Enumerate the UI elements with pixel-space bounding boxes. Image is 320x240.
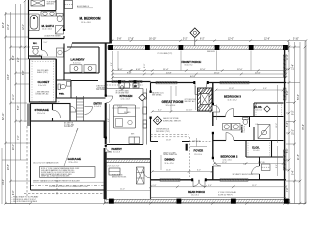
entry note block	[96, 84, 107, 91]
svg-text:FOYER: FOYER	[194, 148, 204, 152]
dimension line top	[112, 41, 306, 204]
svg-text:12'-0": 12'-0"	[237, 69, 243, 71]
label WC	[33, 34, 61, 44]
svg-text:11'-8 x 12'-2: 11'-8 x 12'-2	[228, 99, 237, 101]
svg-text:16'-0 x 8'-0 O.H. GARAGE DOOR: 16'-0 x 8'-0 O.H. GARAGE DOOR	[33, 162, 59, 165]
door jambs black	[63, 29, 214, 181]
svg-text:78'-4": 78'-4"	[303, 124, 305, 130]
bath2 hall wall	[250, 117, 255, 141]
interior dim marks center	[176, 86, 283, 176]
hall wall right of bedroom2	[259, 157, 261, 180]
svg-text:M. BATH: M. BATH	[42, 24, 54, 28]
closet 1 walls	[254, 103, 284, 117]
svg-text:11'-2": 11'-2"	[287, 54, 289, 60]
svg-text:KITCHEN: KITCHEN	[120, 94, 133, 98]
svg-text:OPT. BUILT-INS: OPT. BUILT-INS	[185, 99, 196, 101]
svg-text:8" COLUMNS (TYP.): 8" COLUMNS (TYP.)	[158, 53, 173, 55]
kitchen front wall	[106, 81, 151, 83]
svg-text:21'-8": 21'-8"	[298, 154, 300, 160]
linen between bath2	[256, 124, 259, 126]
dimension lines left margin	[2, 1, 30, 204]
svg-text:9'-0 x 14'-2: 9'-0 x 14'-2	[38, 85, 46, 87]
wc toilet	[33, 47, 39, 55]
svg-text:M. BEDROOM: M. BEDROOM	[80, 17, 101, 21]
attic stair ladder	[77, 96, 84, 121]
svg-text:12'-6 x 14'-8: 12'-6 x 14'-8	[121, 99, 130, 101]
label KITCHEN	[116, 90, 133, 101]
door arc bedroom2 hall	[252, 166, 260, 174]
svg-text:5'-8": 5'-8"	[258, 162, 262, 164]
wall left of master bath	[28, 0, 30, 39]
dimension ticks top	[111, 39, 308, 42]
wall master bath right	[63, 0, 65, 39]
svg-text:8'-0": 8'-0"	[287, 148, 289, 153]
rear wall of house	[151, 179, 287, 181]
svg-text:PER SPEC (TYP.): PER SPEC (TYP.)	[156, 131, 170, 133]
right wall windows hatched	[283, 55, 286, 170]
svg-text:SHELF (TYP.): SHELF (TYP.)	[37, 72, 48, 74]
wall between great room and bedrooms	[212, 83, 214, 181]
svg-text:6'-0": 6'-0"	[197, 170, 201, 172]
svg-text:8'-4": 8'-4"	[13, 55, 15, 60]
storage top dim texts	[39, 102, 61, 104]
svg-text:BEDROOM 2: BEDROOM 2	[221, 154, 238, 158]
linen shelves	[262, 164, 271, 171]
svg-text:12'-8": 12'-8"	[264, 39, 270, 41]
mudroom door arc	[143, 170, 151, 178]
label BATH 2	[241, 124, 246, 133]
hall notes	[233, 162, 266, 176]
door arc master bedroom	[64, 44, 72, 52]
porch short dim ticks	[129, 69, 146, 75]
svg-text:12'-0 CLG.: 12'-0 CLG.	[194, 154, 203, 156]
svg-text:BATH 2: BATH 2	[241, 124, 244, 133]
svg-text:6'-8": 6'-8"	[153, 185, 157, 187]
front porch label	[158, 51, 216, 67]
svg-text:W/ CROWN TRIM: W/ CROWN TRIM	[116, 93, 130, 95]
svg-text:CLOSET: CLOSET	[38, 80, 50, 84]
garage note line 2	[49, 185, 88, 188]
svg-text:GARAGE: GARAGE	[68, 157, 82, 161]
garage slab dashed	[24, 126, 104, 196]
svg-text:2'-8" 4'-0" 2'-8": 2'-8" 4'-0" 2'-8"	[108, 165, 120, 167]
porch dimension lines	[113, 71, 287, 78]
label DINING	[163, 152, 177, 164]
rear porch label	[188, 191, 205, 196]
svg-text:GREAT ROOM: GREAT ROOM	[162, 100, 184, 104]
storage grey wall	[27, 104, 31, 127]
bottom left bullet notes	[11, 195, 39, 203]
dimension text right (rotated)	[287, 54, 305, 192]
svg-text:BEDROOM 3: BEDROOM 3	[224, 94, 241, 98]
kitchen left wall (thick)	[105, 44, 107, 200]
kitchen dim lines	[110, 104, 141, 143]
svg-text:6'-2": 6'-2"	[200, 39, 205, 41]
label M. BEDROOM	[80, 17, 101, 24]
rear porch dim line	[151, 186, 287, 188]
garage note box	[40, 167, 96, 178]
bedroom3 bottom wall	[213, 116, 284, 118]
svg-text:11'-4": 11'-4"	[163, 69, 169, 71]
svg-text:14'-6": 14'-6"	[8, 74, 10, 80]
mudroom top wall hatched	[106, 160, 151, 163]
laundry room walls	[64, 44, 99, 81]
svg-text:W.C.: W.C.	[33, 43, 38, 45]
dining rear dim line	[152, 171, 212, 173]
svg-text:CLOS.: CLOS.	[252, 147, 260, 150]
svg-text:17'-8": 17'-8"	[128, 39, 134, 41]
svg-text:STORAGE: STORAGE	[35, 108, 49, 112]
svg-text:5'-8": 5'-8"	[117, 39, 122, 41]
svg-text:SEE DET.: SEE DET.	[47, 3, 55, 5]
door arc entry-kitchen	[106, 96, 113, 103]
svg-text:5'-4": 5'-4"	[208, 185, 212, 187]
svg-text:18'-0 x 8'-0: 18'-0 x 8'-0	[185, 65, 193, 67]
svg-text:REAR PORCH: REAR PORCH	[188, 191, 205, 194]
svg-text:7'-0": 7'-0"	[18, 135, 20, 140]
svg-text:+ SHOE BENCH: + SHOE BENCH	[96, 87, 107, 89]
powder room walls	[57, 59, 106, 98]
closet1 tag diamond	[264, 106, 270, 112]
svg-text:6'-2": 6'-2"	[287, 90, 289, 95]
svg-text:6'-8": 6'-8"	[23, 70, 25, 75]
svg-text:5'-6 x 6'-0: 5'-6 x 6'-0	[253, 150, 260, 152]
svg-text:15'-0": 15'-0"	[214, 72, 220, 74]
bath2 toilet	[243, 118, 249, 125]
svg-text:SEE ELEV.: SEE ELEV.	[207, 51, 216, 53]
svg-text:12'-8": 12'-8"	[229, 88, 234, 90]
master bath shower	[56, 26, 64, 35]
front door arc	[195, 83, 207, 95]
svg-text:62'-10": 62'-10"	[3, 113, 5, 120]
garage note leader line	[64, 128, 78, 166]
svg-text:5'-6 x 6'-0: 5'-6 x 6'-0	[256, 109, 263, 111]
master bath toilet	[57, 14, 64, 22]
label GARAGE	[68, 157, 82, 164]
dining walls	[151, 141, 190, 143]
svg-text:12'-10": 12'-10"	[186, 110, 192, 112]
svg-text:11'-6 x 12'-0: 11'-6 x 12'-0	[165, 163, 174, 165]
kitchen sink counter	[107, 83, 143, 89]
svg-text:23'-8": 23'-8"	[8, 164, 10, 170]
svg-text:12'-4": 12'-4"	[222, 162, 227, 164]
svg-text:6'-0 x 4'-8: 6'-0 x 4'-8	[113, 152, 120, 154]
svg-text:12'-0": 12'-0"	[200, 69, 206, 71]
laundry washer left	[57, 48, 64, 57]
dimension text top	[117, 39, 299, 41]
svg-text:5'-0": 5'-0"	[118, 69, 123, 71]
svg-text:8'-0": 8'-0"	[144, 63, 146, 68]
closet1 dashed shelf	[256, 105, 282, 116]
svg-text:BENCH W/ HOOKS: BENCH W/ HOOKS	[112, 177, 126, 179]
garage top wall to kitchen	[70, 120, 106, 122]
great room tag diamond	[153, 116, 161, 124]
svg-text:9'-6": 9'-6"	[108, 118, 110, 122]
fireplace hatched	[198, 88, 213, 111]
svg-text:15'-8": 15'-8"	[166, 139, 171, 141]
closet2 dashed shelf	[248, 143, 270, 156]
svg-text:14'-8": 14'-8"	[166, 72, 172, 74]
label M. BATH	[42, 24, 54, 31]
mudroom note	[108, 165, 127, 178]
svg-text:5'-10": 5'-10"	[293, 39, 299, 41]
svg-text:13'-4": 13'-4"	[293, 64, 295, 70]
utility note block	[64, 121, 75, 128]
note top small	[47, 1, 94, 8]
svg-text:PER OWNER: PER OWNER	[96, 89, 106, 91]
wc door arc	[42, 50, 48, 56]
dimension ticks left	[4, 0, 26, 205]
closet room walls	[30, 59, 57, 102]
kitchen island	[114, 105, 136, 128]
dining dim stub	[160, 155, 162, 170]
door arc bedroom2	[213, 158, 221, 166]
svg-text:PANTRY: PANTRY	[112, 147, 123, 151]
svg-text:8'-6": 8'-6"	[276, 164, 278, 168]
bedroom3 label	[224, 94, 241, 101]
right exterior wall	[284, 46, 286, 203]
label BEDROOM 2	[221, 154, 238, 161]
svg-text:44'-8": 44'-8"	[190, 76, 196, 78]
garage walls	[31, 121, 105, 190]
label CLOS 1	[255, 106, 263, 111]
master shower top	[31, 0, 45, 6]
svg-text:CLOS.: CLOS.	[255, 106, 263, 109]
mech room door arc	[53, 110, 61, 118]
svg-text:9'-4": 9'-4"	[293, 170, 295, 175]
svg-text:9'-6 x 5'-0: 9'-6 x 5'-0	[244, 126, 246, 133]
master bath wall mid	[29, 0, 57, 11]
great room fp dim	[195, 86, 197, 110]
door arc bath2	[226, 133, 234, 141]
label PANTRY	[112, 147, 123, 154]
foyer dim line	[190, 138, 207, 147]
garage door label	[33, 162, 59, 165]
svg-text:11'-0": 11'-0"	[13, 94, 15, 100]
wall master bath bottom	[28, 38, 64, 40]
svg-text:5'-0": 5'-0"	[44, 42, 48, 44]
svg-text:22'-6 x 22'-0: 22'-6 x 22'-0	[69, 162, 78, 164]
svg-text:9'-2": 9'-2"	[18, 57, 20, 62]
front wall with porch beam (hatched)	[108, 46, 288, 49]
label LAUNDRY	[71, 58, 85, 65]
label ENTRY	[94, 102, 103, 108]
svg-text:REF.: REF.	[131, 134, 135, 136]
svg-text:11'-6": 11'-6"	[166, 170, 171, 172]
bath2 bottom wall	[213, 141, 284, 158]
pantry walls	[107, 145, 151, 159]
svg-text:PWD.: PWD.	[59, 94, 65, 96]
kitchen tag circle	[120, 86, 124, 90]
svg-text:8'-2 x 6'-4: 8'-2 x 6'-4	[73, 62, 80, 64]
svg-text:20'-0": 20'-0"	[13, 144, 15, 150]
bottom porch beam hatched	[105, 199, 290, 202]
mudroom lockers	[109, 167, 144, 184]
svg-text:6'-4": 6'-4"	[111, 62, 113, 66]
window tag diamond top	[190, 28, 200, 46]
svg-text:24'-0 x 8'-0: 24'-0 x 8'-0	[191, 195, 199, 197]
svg-text:7'-4": 7'-4"	[39, 102, 43, 104]
svg-text:SLOPE 1/4" PER FT.: SLOPE 1/4" PER FT.	[218, 194, 233, 196]
svg-text:11'-0": 11'-0"	[120, 189, 125, 191]
mud dim line bottom	[107, 190, 150, 192]
svg-text:15'-4 x 16'-0: 15'-4 x 16'-0	[81, 22, 91, 24]
hall wall above closet	[30, 58, 57, 60]
front wall windows hatched	[156, 81, 249, 84]
dimension lines right margin	[286, 42, 306, 204]
svg-text:10'-2": 10'-2"	[8, 24, 10, 30]
bedroom3 dim line	[216, 85, 283, 102]
kitchen tag diamond	[139, 94, 146, 101]
svg-text:16'-10": 16'-10"	[149, 39, 156, 41]
storage room walls	[31, 104, 71, 122]
door arc pantry	[106, 146, 112, 152]
svg-text:7'-10": 7'-10"	[117, 106, 122, 108]
svg-text:5'-4": 5'-4"	[287, 122, 289, 127]
water closet room	[29, 39, 42, 60]
svg-text:8'-2": 8'-2"	[293, 110, 295, 115]
svg-text:22'-4": 22'-4"	[3, 22, 5, 28]
svg-text:LAUNDRY: LAUNDRY	[71, 58, 85, 62]
powder toilet	[58, 82, 71, 90]
wall master bedroom right (thick)	[109, 0, 112, 44]
svg-text:18'-0 x 20'-4: 18'-0 x 20'-4	[166, 105, 176, 107]
dimension ticks right	[288, 46, 307, 205]
rear porch dim texts	[153, 185, 258, 187]
foyer jamb	[186, 144, 188, 151]
svg-text:9'-8": 9'-8"	[127, 72, 132, 74]
master bath tub	[29, 14, 39, 31]
rear wall windows hatched	[160, 179, 248, 182]
garage right wall	[104, 121, 106, 199]
bath2 shower	[258, 125, 270, 139]
svg-text:ENTRY: ENTRY	[94, 102, 103, 105]
great room dashed beam lines	[151, 135, 190, 137]
label GREAT ROOM	[162, 100, 184, 107]
svg-text:6'-2": 6'-2"	[158, 110, 162, 112]
great room dim line	[152, 86, 211, 112]
svg-text:ISLAND: ISLAND	[124, 111, 131, 114]
great room left wall	[150, 83, 152, 159]
svg-text:BUILT-IN MUD: BUILT-IN MUD	[112, 175, 123, 177]
refrigerator	[129, 137, 140, 144]
svg-text:4'-6": 4'-6"	[13, 190, 15, 195]
svg-text:6'-4 x 8'-0: 6'-4 x 8'-0	[94, 106, 101, 108]
great room front wall	[151, 82, 287, 84]
svg-text:12'-2": 12'-2"	[276, 123, 278, 128]
rear porch slab edge	[151, 180, 287, 199]
mudroom right wall	[150, 159, 152, 199]
svg-text:4'-8": 4'-8"	[136, 69, 141, 71]
foyer dashed	[190, 137, 213, 177]
wall master bedroom bottom	[72, 42, 110, 44]
svg-text:SEE DETAIL: SEE DETAIL	[152, 94, 162, 97]
door arc bedroom3 closet	[254, 103, 256, 110]
svg-text:10'-6": 10'-6"	[255, 72, 261, 74]
svg-text:SURROUND. SEE DET.: SURROUND. SEE DET.	[163, 120, 182, 122]
svg-text:5'-8": 5'-8"	[56, 102, 60, 104]
svg-text:DROP CLG. SEE: DROP CLG. SEE	[163, 152, 175, 154]
storage door swing	[70, 106, 93, 115]
hall wall right of powder	[71, 80, 98, 82]
porch left dim column	[113, 51, 252, 81]
bottom porch posts	[109, 199, 289, 204]
porch posts on front beam	[108, 45, 288, 50]
svg-text:FRONT PORCH: FRONT PORCH	[182, 60, 202, 64]
great room notes	[152, 91, 196, 132]
svg-text:12'-0": 12'-0"	[23, 24, 25, 30]
svg-text:53'-6": 53'-6"	[298, 94, 300, 100]
svg-text:— SEE SITE PLAN FOR DETAILS: — SEE SITE PLAN FOR DETAILS	[11, 200, 38, 203]
foyer label	[192, 140, 203, 156]
svg-text:7'-6": 7'-6"	[287, 187, 289, 192]
rear french door arcs	[193, 180, 205, 187]
label CLOSET	[36, 69, 50, 96]
svg-text:5'-6": 5'-6"	[18, 105, 20, 110]
garage door dashed header	[31, 185, 104, 187]
svg-text:11'-2": 11'-2"	[252, 185, 257, 187]
svg-text:12'-0 x 10'-6: 12'-0 x 10'-6	[42, 29, 52, 31]
label PWD	[59, 94, 65, 96]
washer dryer	[70, 65, 96, 72]
bath2 vanities	[223, 124, 241, 131]
svg-text:14'-2": 14'-2"	[3, 179, 5, 185]
garage note line 1	[33, 180, 104, 183]
svg-text:9'-6": 9'-6"	[263, 88, 267, 90]
svg-text:12'-0": 12'-0"	[228, 39, 234, 41]
door arc bedroom3	[226, 109, 234, 117]
kitchen right counter	[143, 89, 147, 145]
svg-text:5'-2": 5'-2"	[183, 39, 188, 41]
closet top dim	[30, 56, 56, 58]
dimension text left (rotated)	[3, 22, 25, 195]
dimension line bottom	[6, 203, 307, 205]
svg-text:11'-8 x 5'-0: 11'-8 x 5'-0	[37, 113, 45, 115]
svg-text:15'-2": 15'-2"	[293, 129, 295, 135]
label CLOS 2	[252, 147, 260, 152]
kitchen window hatches on front wall	[112, 80, 142, 83]
master bath vanity	[41, 12, 56, 17]
closet shelving dashed	[32, 61, 54, 101]
door arc hall closets	[213, 105, 220, 112]
svg-text:DETAIL SHT. A-6: DETAIL SHT. A-6	[36, 93, 49, 96]
linen closet bath	[65, 1, 73, 9]
label STORAGE	[35, 108, 49, 115]
bottom right notes	[218, 191, 236, 196]
svg-text:DINING: DINING	[165, 158, 176, 162]
